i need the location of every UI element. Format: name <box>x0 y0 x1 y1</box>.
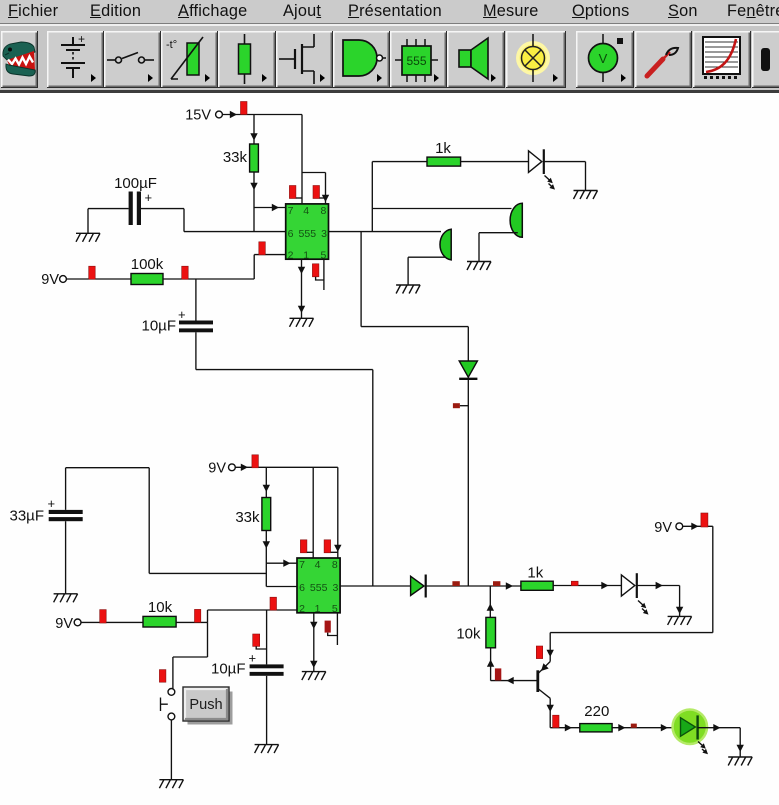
svg-text:1: 1 <box>315 603 321 615</box>
junction marker at pin 4 of U2 <box>300 540 313 553</box>
node 15V terminal <box>185 108 222 124</box>
speaker LS1 <box>510 203 522 237</box>
wire junction down to switch <box>173 622 208 688</box>
wire junction down to C2 <box>195 279 197 321</box>
wire R7 to LED D4 <box>612 727 673 729</box>
svg-text:8: 8 <box>320 205 326 217</box>
arrow after R7 <box>618 724 625 731</box>
svg-text:7: 7 <box>288 205 294 217</box>
wire rise to pin 2 <box>254 255 286 279</box>
wire 9V rail 4 <box>550 526 713 632</box>
button transistor <box>276 31 333 88</box>
svg-text:2: 2 <box>288 249 294 261</box>
svg-text:1k: 1k <box>435 140 451 157</box>
arrow into pin 7 <box>272 204 279 211</box>
arrow below R4 <box>263 541 270 548</box>
arrow below R1 <box>250 183 257 190</box>
svg-text:6: 6 <box>288 228 294 240</box>
wire D1 down to lower circuit <box>467 379 469 586</box>
pin labels U2 <box>299 559 338 615</box>
ground for pin 1 <box>290 318 314 327</box>
arrow after R8 <box>601 582 608 589</box>
marker stub on C4 wire <box>253 634 267 649</box>
wire node up to 1k branch <box>371 162 373 232</box>
wire pin4 to pin8 link <box>302 173 326 204</box>
ground for LS2 <box>396 285 420 294</box>
resistor R8 1k <box>521 581 553 590</box>
junction marker after 9V <box>89 266 96 279</box>
junction marker at pin 2 <box>259 242 266 255</box>
svg-text:9V: 9V <box>55 616 73 632</box>
button 555 chip <box>390 31 447 88</box>
wire 9V to R5 <box>81 621 143 623</box>
arrows on pin1 wire of U2 <box>310 622 317 629</box>
wire pin 1 of U2 to ground <box>313 613 315 672</box>
junction marker on collector corner <box>553 715 559 727</box>
wire junction up to pin 2 <box>207 610 209 622</box>
svg-text:6: 6 <box>299 582 305 594</box>
wire 9V to pin 8 of U2 <box>337 467 339 558</box>
node 9V terminal upper left <box>41 272 66 288</box>
maroon marker on base wire <box>495 668 501 680</box>
svg-text:555: 555 <box>406 54 426 68</box>
dim marker 1 on line <box>452 581 459 586</box>
svg-text:9V: 9V <box>208 461 226 477</box>
arrow before R7 <box>565 724 572 731</box>
svg-text:Push: Push <box>189 697 222 713</box>
arrow into pin 7 of U2 <box>283 560 290 567</box>
svg-text:+: + <box>145 190 153 205</box>
wire down to R4 <box>265 467 267 497</box>
wire link to C3 33uF <box>66 468 267 574</box>
wire R8 to LED D5 <box>553 585 621 587</box>
node 9V terminal 3 <box>55 616 81 632</box>
wire 1k branch <box>372 161 427 163</box>
wire C1 right to pin 6 <box>141 209 286 232</box>
ground for C4 <box>255 745 279 754</box>
wire pin 2 line of U2 <box>208 609 298 611</box>
arrow after D4 <box>713 724 720 731</box>
arrow from 9V 2 <box>241 464 248 471</box>
toolbar <box>0 26 779 90</box>
wire pin 3 output of U2 <box>340 585 411 587</box>
junction marker near pin 2 of U2 <box>270 597 277 610</box>
arrow down on emitter wire <box>547 650 554 657</box>
arrow into R1 <box>250 133 257 140</box>
svg-text:10k: 10k <box>148 599 173 616</box>
arrow before D4 <box>661 724 668 731</box>
button crocodile logo <box>1 31 38 88</box>
wire pin 3 output <box>329 231 442 233</box>
ground for D4 <box>728 757 752 766</box>
wire to speaker LS1 <box>372 208 511 210</box>
ground for C3 <box>54 594 78 603</box>
wire switch to ground <box>170 720 172 780</box>
button switch <box>104 31 161 88</box>
wire 15V down to R1 <box>253 115 255 145</box>
svg-text:+: + <box>249 651 257 666</box>
ground for pin 1 of U2 <box>302 672 326 681</box>
arrows on pin1 wire <box>298 267 305 274</box>
menu bar <box>0 0 779 24</box>
junction marker on 9V rail 4 <box>701 513 708 527</box>
resistor R1 33k <box>250 144 259 172</box>
wire LS2 to ground <box>408 257 446 285</box>
wire collector to R7 <box>550 727 580 729</box>
pushbutton Push <box>183 687 233 725</box>
svg-text:9V: 9V <box>41 272 59 288</box>
wire D2 to ground <box>544 162 586 191</box>
button nand gate <box>333 31 390 88</box>
junction marker after 9V 3 <box>100 610 107 623</box>
LED D2 <box>529 149 557 191</box>
junction marker after R5 <box>195 609 201 622</box>
junction marker at pin 8 of U2 <box>324 540 338 553</box>
wire 9V to pin 4 of U2 <box>312 467 314 558</box>
wire pin 5 stub <box>323 259 325 290</box>
wire LS1 to ground <box>479 233 518 262</box>
button voltmeter <box>576 31 634 88</box>
svg-text:2: 2 <box>299 603 305 615</box>
wire C2 long drop to lower circuit <box>196 332 373 586</box>
svg-text:V: V <box>599 51 608 66</box>
ground for D5 <box>668 616 692 625</box>
resistor R3 1k <box>427 157 461 166</box>
button speaker <box>447 31 505 88</box>
arrow left on base wire <box>507 677 514 684</box>
ground for D2 <box>574 191 598 200</box>
wire C1 left to ground <box>88 209 129 233</box>
svg-text:3: 3 <box>332 582 338 594</box>
marker at pin 5 <box>312 264 324 280</box>
wire D4 to ground <box>698 728 741 757</box>
capacitor C1 100uF <box>129 192 141 226</box>
arrow up to junction <box>487 604 494 611</box>
arrow from 9V 4 <box>691 523 698 530</box>
svg-text:1: 1 <box>303 249 309 261</box>
wire R3 to LED D2 <box>461 161 529 163</box>
resistor R5 10k <box>143 616 176 627</box>
svg-text:555: 555 <box>299 228 317 240</box>
arrow into pin 8 <box>322 195 329 202</box>
speaker LS2 <box>440 229 451 260</box>
arrow down before ground D5 <box>676 607 683 614</box>
svg-text:10k: 10k <box>456 626 481 643</box>
capacitor C4 10uF <box>250 664 284 675</box>
button thermistor <box>161 31 218 88</box>
junction marker above switch <box>159 670 166 683</box>
wire C3 to ground <box>65 521 67 593</box>
wire pin 7 stub 2 <box>266 562 297 564</box>
arrow current from 15V <box>230 111 237 118</box>
resistor R7 220 <box>580 724 612 732</box>
diode D3 green <box>411 575 426 598</box>
arrow into R4 <box>263 485 270 492</box>
op-amp U2 555 timer <box>297 558 340 613</box>
node 9V terminal 2 <box>208 461 235 477</box>
node 9V terminal 4 <box>654 520 682 536</box>
diode D1 green down <box>459 361 477 379</box>
transistor Q1 PNP <box>538 662 550 699</box>
wire 15V rail <box>223 114 303 116</box>
button graph <box>693 31 751 88</box>
wire down to C4 <box>266 610 268 664</box>
junction marker at pin 4 <box>289 186 302 199</box>
arrow up below R6 <box>487 660 494 667</box>
arrow down before ground D4 <box>737 745 744 752</box>
wire D3 to R8 <box>426 585 521 587</box>
svg-text:1k: 1k <box>527 565 543 582</box>
capacitor C2 10uF <box>179 321 213 333</box>
switch SW1 push-to-make <box>161 689 175 720</box>
ground for C1 <box>76 233 100 242</box>
svg-text:9V: 9V <box>654 520 672 536</box>
svg-text:-t°: -t° <box>166 39 177 51</box>
wire emitter up to 9V rail <box>549 633 551 662</box>
pin labels U1 <box>288 205 327 261</box>
wire C4 to ground <box>266 676 268 745</box>
wire pin 7 stub <box>254 207 286 209</box>
wire R5 to junction <box>176 621 207 623</box>
svg-text:33k: 33k <box>235 509 260 526</box>
dim marker after R7 <box>631 724 637 728</box>
svg-text:4: 4 <box>315 559 321 571</box>
resistor R6 10k <box>486 617 496 647</box>
svg-text:8: 8 <box>332 559 338 571</box>
svg-text:7: 7 <box>299 559 305 571</box>
wire R2 to rise junction <box>163 278 254 280</box>
junction marker on emitter wire <box>536 646 542 659</box>
wire 15V down to pin 4 <box>301 115 303 204</box>
svg-text:4: 4 <box>303 205 309 217</box>
marker at pin 5 of U2 <box>325 621 338 636</box>
arrow into pin 8 of U2 <box>334 545 341 552</box>
LED D4 glowing <box>671 708 710 756</box>
svg-text:100k: 100k <box>131 256 164 273</box>
junction marker on 15V rail <box>241 102 248 115</box>
button resistor <box>218 31 276 88</box>
junction marker after R2 <box>182 266 189 279</box>
button battery <box>47 31 104 88</box>
button partial right edge <box>752 31 779 88</box>
junction marker on 9V rail 2 <box>252 455 259 468</box>
button lamp <box>506 31 566 88</box>
junction marker at pin 8 <box>313 186 326 199</box>
op-amp U1 555 timer <box>286 204 329 259</box>
ground for SW1 <box>159 780 183 789</box>
marker after R8 <box>571 581 578 585</box>
svg-text:+: + <box>78 32 85 46</box>
arrow before R8 <box>506 582 513 589</box>
resistor R4 33k <box>262 498 271 531</box>
svg-text:+: + <box>178 307 186 322</box>
wire node down to diode D1 <box>361 232 468 361</box>
wire R1 down to pins 7 and 6 <box>253 172 255 232</box>
svg-text:15V: 15V <box>185 108 211 124</box>
svg-text:220: 220 <box>584 703 609 720</box>
dim marker below D1 <box>453 403 468 408</box>
wire branch down to R6 <box>489 586 491 617</box>
capacitor C3 33uF <box>49 510 83 521</box>
wire pin 5 stub of U2 <box>336 613 338 645</box>
arrow D5 ground <box>656 582 663 589</box>
wire 9V to R2 <box>66 278 131 280</box>
svg-text:3: 3 <box>321 228 327 240</box>
svg-text:+: + <box>48 496 56 511</box>
wire R6 to transistor base <box>491 648 537 681</box>
wire pin 1 to ground <box>301 259 303 318</box>
svg-text:33µF: 33µF <box>10 508 45 525</box>
wire collector down <box>549 698 551 727</box>
dim marker 2 on line <box>493 581 500 586</box>
wire pin 6 stub 2 <box>266 586 297 588</box>
wire R4 down to pins 7 and 6 <box>265 531 267 587</box>
LED D5 <box>621 573 650 616</box>
svg-text:33k: 33k <box>223 149 248 166</box>
ground for LS1 <box>467 262 491 271</box>
svg-text:10µF: 10µF <box>142 318 177 335</box>
resistor R2 100k <box>131 274 163 285</box>
svg-text:10µF: 10µF <box>211 661 246 678</box>
wire D5 to ground <box>637 586 680 617</box>
svg-text:555: 555 <box>310 582 328 594</box>
arrow down on collector wire <box>547 705 554 712</box>
wire 9V rail 2 <box>235 466 337 468</box>
button probe iron <box>635 31 692 88</box>
